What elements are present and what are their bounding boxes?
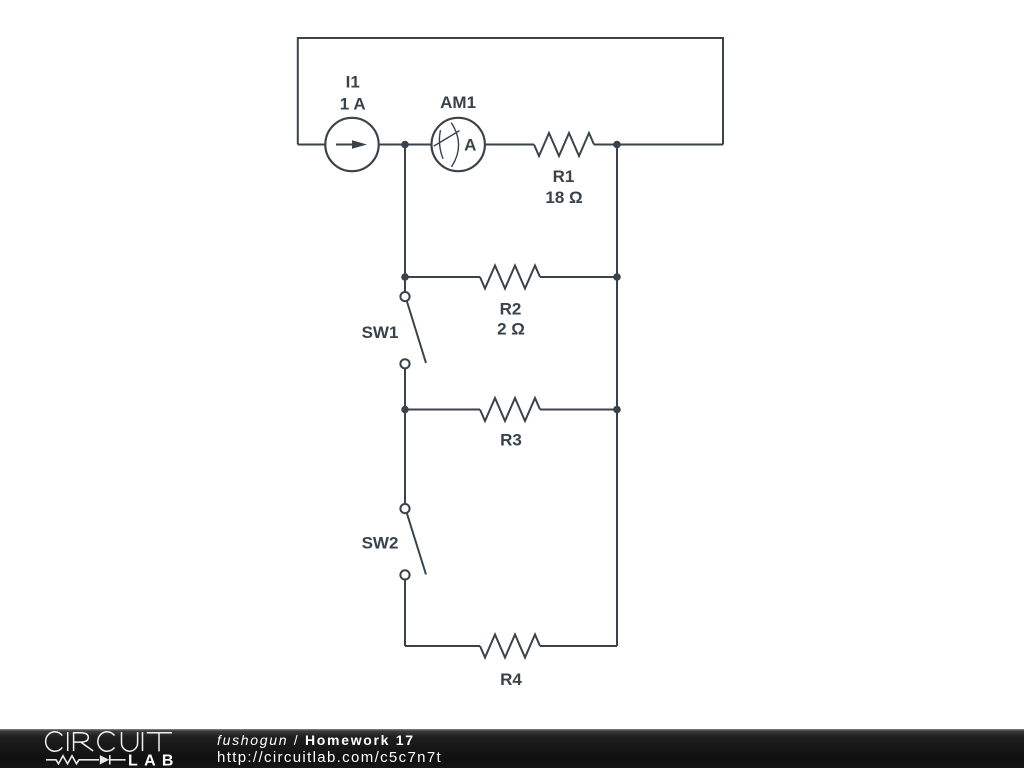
svg-text:R4: R4: [500, 670, 522, 689]
label R3: [500, 431, 522, 450]
resistor R1: [534, 133, 594, 156]
svg-text:18 Ω: 18 Ω: [545, 188, 582, 207]
label SW2: [362, 534, 399, 553]
current source I1: [325, 118, 378, 171]
svg-text:R3: R3: [500, 431, 522, 450]
wire right rail: [616, 145, 618, 647]
node junction R2 right: [613, 273, 621, 281]
CircuitLab logo: [0, 728, 190, 768]
node junction R2 left: [401, 273, 409, 281]
footer bar: [0, 729, 1024, 768]
wire AM1 to R1: [485, 144, 534, 146]
wire R4 right lead: [540, 645, 617, 647]
wire node to SW1: [404, 277, 406, 292]
resistor R2: [480, 266, 540, 289]
svg-text:SW2: SW2: [362, 534, 399, 553]
label I1: [346, 72, 360, 91]
node junction R3 right: [613, 406, 621, 414]
wire left rail row1 to row2: [404, 145, 406, 278]
label R1: [553, 167, 575, 186]
wire R2 right lead: [540, 276, 617, 278]
svg-text:AM1: AM1: [440, 93, 476, 112]
wire R3 left lead: [405, 409, 480, 411]
wire I1 to AM1 through node: [379, 144, 431, 146]
wire SW2 to bottom row: [404, 580, 406, 647]
resistor R4: [480, 635, 540, 658]
label SW1: [362, 323, 399, 342]
label R2: [500, 300, 522, 319]
label AM1: [440, 93, 476, 112]
wire node to SW2: [404, 410, 406, 505]
wire R1 to top-right corner through node: [594, 144, 723, 146]
svg-text:2 Ω: 2 Ω: [497, 320, 525, 339]
wire I1 left lead: [298, 144, 325, 146]
footer url text: [217, 750, 442, 765]
node junction at top-right rail: [613, 141, 621, 149]
wire R2 left lead: [405, 276, 480, 278]
svg-text:LAB: LAB: [128, 753, 180, 768]
value 1 A: [340, 94, 366, 113]
value 18 Ω: [545, 188, 582, 207]
wire R4 left lead: [405, 645, 480, 647]
svg-text:R2: R2: [500, 300, 522, 319]
svg-text:I1: I1: [346, 72, 360, 91]
wire SW1 to node: [404, 368, 406, 409]
logo word CIRCUIT: [46, 732, 172, 752]
switch SW2: [400, 504, 426, 580]
node junction at top-left rail: [401, 141, 409, 149]
logo squiggle resistor+diode: [46, 755, 126, 764]
node junction R3 left: [401, 406, 409, 414]
label R4: [500, 670, 522, 689]
svg-text:SW1: SW1: [362, 323, 399, 342]
wire top loop: [298, 38, 723, 145]
value 2 Ω: [497, 320, 525, 339]
svg-text:R1: R1: [553, 167, 575, 186]
svg-text:A: A: [464, 136, 476, 155]
svg-text:1 A: 1 A: [340, 94, 366, 113]
resistor R3: [480, 398, 540, 421]
ammeter AM1: [432, 118, 485, 171]
footer title text: [217, 733, 415, 747]
wire R3 right lead: [540, 409, 617, 411]
switch SW1: [400, 292, 426, 368]
